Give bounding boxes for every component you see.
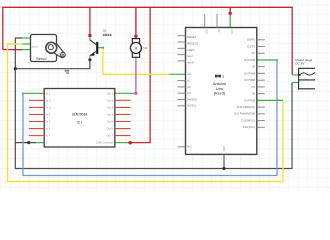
svg-text:In 4: In 4 [46,112,51,116]
svg-text:COM Common: COM Common [96,141,114,145]
svg-text:1: 1 [222,74,224,78]
svg-text:5V: 5V [217,30,220,33]
svg-text:D6 PWM: D6 PWM [244,78,256,82]
svg-text:Out 6: Out 6 [107,127,114,131]
svg-text:In 5: In 5 [46,120,51,124]
svg-text:Arduino: Arduino [213,82,226,86]
svg-text:D10 PWM(SS): D10 PWM(SS) [237,105,255,109]
svg-text:pulse: pulse [32,45,39,49]
svg-text:In 3: In 3 [46,105,51,109]
svg-text:Out 3: Out 3 [107,105,114,109]
svg-text:Out 4: Out 4 [107,112,114,116]
svg-text:N/C: N/C [187,145,192,149]
svg-text:M1: M1 [143,46,147,50]
svg-text:D3 PWM: D3 PWM [244,58,256,62]
svg-text:D7: D7 [252,85,256,89]
svg-text:Out 7: Out 7 [107,134,114,138]
svg-text:RESET: RESET [187,35,196,39]
svg-text:In 1: In 1 [46,91,51,95]
svg-text:VIN: VIN [230,30,233,34]
svg-text:In 2: In 2 [46,98,51,102]
svg-text:D8: D8 [252,92,256,96]
svg-text:RESET2: RESET2 [187,42,198,46]
svg-text:3V3: 3V3 [205,30,208,35]
svg-text:Q1: Q1 [103,29,107,33]
svg-text:Out 5: Out 5 [107,120,114,124]
svg-text:A1: A1 [187,79,191,83]
svg-text:GND: GND [222,146,225,152]
svg-text:D5 PWM: D5 PWM [244,71,256,75]
svg-text:D12(MISO): D12(MISO) [241,119,255,123]
svg-text:Uno: Uno [216,87,223,91]
svg-text:E: E [46,141,48,145]
svg-text:Out 2: Out 2 [107,98,114,102]
svg-text:D2: D2 [252,51,256,55]
svg-text:Out 1: Out 1 [107,91,114,95]
svg-text:In 7: In 7 [46,134,51,138]
svg-text:Servo: Servo [36,56,47,61]
svg-text:AREF: AREF [187,48,195,52]
svg-text:A4/SDA: A4/SDA [187,97,197,101]
svg-text:D4: D4 [252,65,256,69]
svg-text:A3: A3 [187,91,191,95]
svg-text:IC1: IC1 [77,120,82,124]
svg-text:D0/RX: D0/RX [247,38,255,42]
svg-text:ioref: ioref [187,54,192,58]
svg-text:D11 PWM(MOSI): D11 PWM(MOSI) [234,112,255,116]
svg-text:(Rev3): (Rev3) [214,91,226,95]
svg-text:D13(SCK): D13(SCK) [243,125,255,129]
svg-text:A0: A0 [187,72,191,76]
svg-text:A2: A2 [187,85,191,89]
svg-text:D1/TX: D1/TX [247,44,255,48]
svg-text:ULN2003A: ULN2003A [72,113,88,117]
svg-text:D9 PWM: D9 PWM [244,98,256,102]
svg-text:A5/SCL: A5/SCL [187,104,197,108]
svg-text:M: M [135,46,138,50]
svg-text:ioref2: ioref2 [187,60,194,64]
svg-text:DC 9V: DC 9V [296,62,305,66]
svg-text:In 6: In 6 [46,127,51,131]
